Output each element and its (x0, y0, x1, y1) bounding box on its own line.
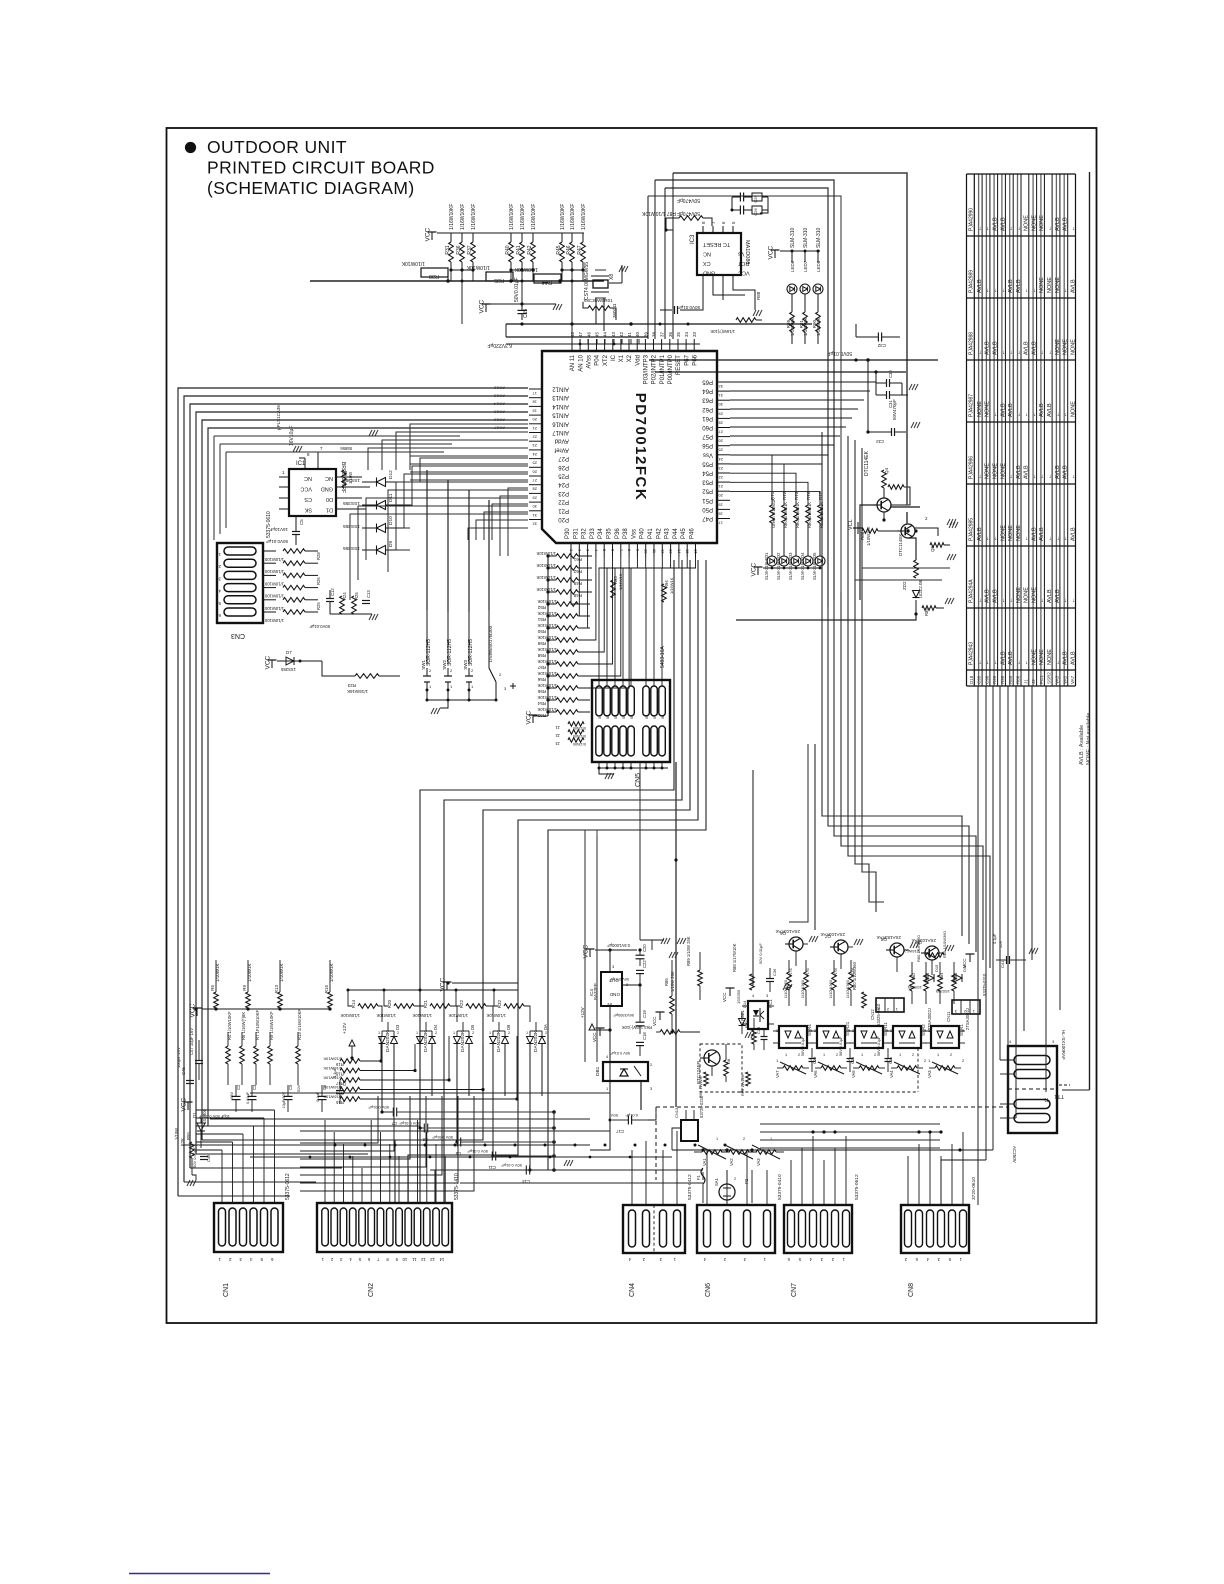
svg-text:←: ← (985, 536, 991, 542)
svg-text:AVLB : Available: AVLB : Available (1079, 725, 1085, 765)
svg-text:1/10W100: 1/10W100 (264, 594, 284, 599)
svg-text:1: 1 (378, 1031, 380, 1035)
svg-text:P63: P63 (702, 397, 713, 403)
svg-text:20: 20 (532, 417, 537, 422)
svg-text:C5: C5 (288, 1084, 293, 1090)
svg-text:1/10W100: 1/10W100 (264, 569, 284, 574)
svg-text:NONE: NONE (1000, 463, 1006, 479)
svg-text:R86: R86 (664, 978, 669, 986)
svg-text:R85: R85 (924, 608, 929, 616)
svg-text:1/16W10K: 1/16W10K (323, 1076, 342, 1081)
svg-text:P42: P42 (656, 528, 662, 539)
svg-text:CST4.00MGW55: CST4.00MGW55 (584, 262, 590, 300)
svg-text:AVLB: AVLB (1000, 651, 1006, 665)
svg-text:R21: R21 (423, 1000, 428, 1009)
svg-text:R69 1W22K: R69 1W22K (740, 1074, 745, 1096)
svg-text:31: 31 (532, 513, 537, 518)
svg-text:05: 05 (630, 715, 634, 719)
svg-text:C19: C19 (642, 1010, 647, 1018)
svg-text:25: 25 (718, 448, 723, 453)
svg-text:Q5: Q5 (930, 545, 935, 552)
svg-text:AIN16: AIN16 (552, 420, 569, 426)
svg-text:VA3: VA3 (927, 1070, 932, 1078)
svg-text:SW3: SW3 (463, 660, 468, 670)
svg-text:ZD2: ZD2 (902, 581, 907, 590)
svg-text:C3: C3 (252, 1084, 257, 1090)
svg-text:←: ← (1031, 474, 1037, 480)
svg-text:CN1: CN1 (223, 1283, 230, 1297)
svg-text:←: ← (1063, 536, 1069, 542)
svg-text:C26: C26 (753, 208, 758, 216)
svg-text:R47: R47 (577, 245, 583, 254)
svg-text:PJA42989: PJA42989 (969, 270, 975, 293)
svg-text:1SS355: 1SS355 (907, 985, 922, 990)
svg-text:1/16W10KF: 1/16W10KF (471, 204, 477, 230)
svg-text:R28: R28 (316, 552, 321, 560)
svg-text:1/10W10K: 1/10W10K (376, 1013, 396, 1018)
svg-text:AVLB: AVLB (1063, 651, 1069, 665)
svg-text:1/10W100: 1/10W100 (264, 581, 284, 586)
svg-text:R55: R55 (537, 689, 546, 694)
svg-text:VA3: VA3 (1055, 675, 1060, 684)
svg-text:R56: R56 (537, 677, 546, 682)
svg-text:UDZ2.0B: UDZ2.0B (918, 579, 923, 598)
svg-text:55856: 55856 (340, 446, 352, 451)
svg-text:PJA42987: PJA42987 (969, 394, 975, 417)
svg-text:R62: R62 (573, 569, 582, 574)
svg-text:21: 21 (532, 426, 537, 431)
svg-text:←: ← (1008, 474, 1014, 480)
svg-text:P64: P64 (702, 388, 713, 394)
svg-text:AVLB: AVLB (1063, 217, 1069, 231)
svg-text:P20: P20 (558, 516, 569, 522)
svg-text:X8C36WBR01: X8C36WBR01 (583, 298, 613, 303)
svg-text:X1: X1 (619, 354, 625, 362)
svg-text:P35: P35 (607, 528, 613, 539)
svg-text:R91: R91 (799, 320, 804, 329)
svg-text:GND: GND (609, 992, 620, 997)
svg-text:50V470pF: 50V470pF (892, 399, 897, 420)
svg-text:R80 1/16W360: R80 1/16W360 (916, 935, 921, 962)
svg-text:R63 1/4W(-)10K: R63 1/4W(-)10K (622, 1025, 652, 1030)
svg-text:22: 22 (532, 435, 537, 440)
svg-text:1/10W100: 1/10W100 (264, 618, 284, 623)
svg-text:C96: C96 (985, 675, 990, 684)
svg-text:R5: R5 (210, 985, 215, 991)
svg-text:2: 2 (836, 1053, 838, 1057)
svg-text:43: 43 (611, 331, 616, 337)
svg-text:NONE: NONE (1016, 525, 1022, 541)
svg-text:CN7: CN7 (791, 1283, 798, 1297)
svg-text:DAN202K: DAN202K (385, 1030, 391, 1052)
svg-text:1SS355: 1SS355 (343, 477, 360, 483)
svg-text:2: 2 (435, 1031, 437, 1035)
svg-text:1/10W10K: 1/10W10K (537, 695, 557, 700)
svg-text:SSR1: SSR1 (959, 1024, 964, 1036)
svg-text:1: 1 (823, 1053, 825, 1057)
svg-text:SSR11: SSR11 (883, 1022, 888, 1036)
svg-text:D8: D8 (726, 1058, 731, 1064)
svg-text:R66 1W22K: R66 1W22K (698, 1076, 703, 1098)
svg-text:P44: P44 (673, 528, 679, 539)
svg-text:µPLS1CA36: µPLS1CA36 (276, 405, 281, 430)
svg-text:CN4: CN4 (629, 1283, 636, 1297)
svg-text:PJA42990: PJA42990 (969, 208, 975, 231)
svg-text:R15: R15 (324, 985, 329, 994)
svg-text:D3: D3 (395, 1024, 400, 1030)
svg-text:56V 0.01µF: 56V 0.01µF (801, 1036, 805, 1056)
svg-text:R25: R25 (354, 592, 359, 600)
svg-text:NONE: NONE (1031, 649, 1037, 665)
svg-text:P45: P45 (681, 528, 687, 539)
svg-text:16: 16 (694, 549, 699, 554)
svg-text:P46: P46 (690, 528, 696, 539)
svg-text:1: 1 (937, 1053, 939, 1057)
svg-text:AVLB: AVLB (1000, 403, 1006, 417)
svg-text:P03/INTP3: P03/INTP3 (644, 354, 650, 384)
svg-text:OUTDOOR UNIT: OUTDOOR UNIT (207, 137, 347, 157)
svg-text:P27: P27 (558, 455, 569, 461)
svg-text:SW2: SW2 (442, 660, 447, 670)
svg-text:←: ← (1008, 350, 1014, 356)
svg-text:P02/INTP2: P02/INTP2 (652, 354, 658, 384)
svg-text:50V0.01µF: 50V0.01µF (266, 539, 288, 544)
svg-text:P43: P43 (665, 528, 671, 539)
svg-text:1/16W10KF: 1/16W10KF (509, 204, 515, 230)
svg-text:TC RESET: TC RESET (702, 241, 730, 247)
svg-text:11: 11 (411, 1257, 416, 1262)
svg-text:C28: C28 (812, 1056, 817, 1064)
svg-text:SSR2: SSR2 (921, 1024, 926, 1036)
svg-text:P00/INTP0: P00/INTP0 (668, 354, 674, 384)
svg-text:1/10W360: 1/10W360 (828, 979, 833, 998)
svg-text:10: 10 (644, 549, 649, 554)
svg-text:02: 02 (606, 715, 610, 719)
svg-text:AVLB: AVLB (1070, 279, 1076, 293)
svg-text:VCC: VCC (592, 1032, 597, 1042)
svg-text:SLM-319LED2: SLM-319LED2 (776, 552, 781, 580)
svg-text:←: ← (977, 350, 983, 356)
svg-text:NONE: NONE (1031, 215, 1037, 231)
svg-text:NONE: NONE (1070, 339, 1076, 355)
svg-text:PJA42985: PJA42985 (969, 518, 975, 541)
svg-text:SSR2: SSR2 (1047, 672, 1052, 684)
svg-text:D1: D1 (326, 507, 333, 513)
svg-text:28: 28 (532, 487, 537, 492)
svg-text:P23: P23 (558, 490, 569, 496)
svg-text:←: ← (1039, 598, 1045, 604)
svg-text:AVLB: AVLB (985, 341, 991, 355)
svg-text:AVLB: AVLB (1063, 465, 1069, 479)
svg-text:P04: P04 (595, 354, 601, 365)
svg-text:SLM-319LED5: SLM-319LED5 (812, 552, 817, 580)
svg-text:P57: P57 (702, 433, 713, 439)
svg-text:1/16W10KF: 1/16W10KF (460, 204, 466, 230)
svg-text:SLM-310: SLM-310 (803, 227, 809, 248)
svg-text:R9: R9 (242, 985, 247, 991)
svg-text:50V 0.01µF: 50V 0.01µF (758, 943, 763, 964)
svg-text:D5: D5 (470, 1024, 475, 1030)
svg-text:←: ← (1000, 288, 1006, 294)
svg-text:LED6: LED6 (790, 260, 795, 272)
svg-text:1/16W1K: 1/16W1K (669, 577, 674, 594)
svg-text:20: 20 (718, 493, 723, 498)
svg-text:VA2: VA2 (729, 1158, 734, 1166)
svg-text:50V 0.01µF: 50V 0.01µF (610, 1051, 630, 1055)
svg-text:R44: R44 (542, 279, 552, 285)
svg-text:24: 24 (532, 452, 537, 457)
svg-text:P53: P53 (702, 479, 713, 485)
svg-text:C36: C36 (772, 968, 777, 976)
svg-text:1SS355: 1SS355 (343, 500, 360, 506)
svg-text:2: 2 (545, 1031, 547, 1035)
svg-text:VA5: VA5 (851, 1070, 856, 1078)
svg-text:PRINTED CIRCUIT BOARD: PRINTED CIRCUIT BOARD (207, 158, 435, 178)
svg-text:R89: R89 (1008, 675, 1013, 684)
svg-text:R25: R25 (316, 602, 321, 610)
svg-text:R73: R73 (794, 491, 799, 500)
svg-text:17: 17 (718, 521, 723, 526)
svg-text:29: 29 (718, 411, 723, 416)
svg-text:NONE: NONE (993, 463, 999, 479)
svg-text:←: ← (1039, 350, 1045, 356)
svg-text:←: ← (977, 226, 983, 232)
svg-text:P38: P38 (623, 528, 629, 539)
svg-text:18: 18 (718, 511, 723, 516)
svg-text:R13: R13 (274, 985, 279, 994)
svg-text:P56: P56 (702, 442, 713, 448)
svg-text:50V0.01µF: 50V0.01µF (309, 624, 330, 629)
svg-text:AVLB: AVLB (993, 589, 999, 603)
svg-text:P24: P24 (558, 481, 569, 487)
svg-text:1/10W100: 1/10W100 (264, 606, 284, 611)
svg-text:30: 30 (532, 504, 537, 509)
svg-text:VCC: VCC (479, 299, 486, 313)
svg-text:P52: P52 (702, 488, 713, 494)
svg-text:VCC: VCC (583, 944, 590, 958)
svg-text:C22: C22 (642, 960, 647, 968)
svg-text:23: 23 (718, 466, 723, 471)
svg-text:32: 32 (718, 384, 723, 389)
svg-text:22: 22 (718, 475, 723, 480)
svg-text:DTC114EK: DTC114EK (864, 450, 870, 476)
svg-text:1/16W10K: 1/16W10K (323, 1066, 342, 1071)
svg-text:PJA42986: PJA42986 (969, 456, 975, 479)
svg-text:R58: R58 (537, 653, 546, 658)
svg-text:50V 0.01µF: 50V 0.01µF (609, 977, 629, 981)
svg-text:14: 14 (677, 549, 682, 554)
svg-text:←: ← (1000, 350, 1006, 356)
svg-text:AVLB: AVLB (1039, 403, 1045, 417)
svg-text:1/10W10K: 1/10W10K (514, 266, 538, 272)
svg-text:31: 31 (718, 393, 723, 398)
svg-text:0.01µF: 0.01µF (246, 1091, 250, 1104)
svg-text:R41: R41 (516, 245, 522, 254)
svg-text:35: 35 (676, 331, 681, 337)
svg-text:NONE: NONE (1031, 587, 1037, 603)
svg-text:J3: J3 (555, 741, 560, 746)
svg-text:P50: P50 (702, 506, 713, 512)
svg-text:R98: R98 (786, 320, 791, 329)
svg-text:32: 32 (532, 522, 537, 527)
svg-text:AVLB: AVLB (1055, 465, 1061, 479)
svg-text:44: 44 (603, 331, 608, 337)
svg-text:1/10W10K: 1/10W10K (448, 1013, 468, 1018)
svg-text:R: R (1044, 1096, 1048, 1102)
svg-text:AVLB: AVLB (1016, 465, 1022, 479)
svg-text:←: ← (1063, 288, 1069, 294)
svg-text:XT2: XT2 (603, 354, 609, 366)
svg-text:VCC: VCC (265, 655, 272, 669)
svg-text:R86: R86 (860, 531, 865, 540)
svg-text:D0: D0 (326, 496, 333, 502)
svg-text:PJA42988: PJA42988 (969, 332, 975, 355)
svg-text:15: 15 (685, 549, 690, 554)
svg-text:C95: C95 (977, 675, 982, 684)
svg-text:AIN15: AIN15 (552, 412, 569, 418)
svg-text:1/10W10K: 1/10W10K (466, 264, 490, 270)
svg-text:IC4: IC4 (589, 989, 594, 997)
svg-text:D9: D9 (388, 541, 394, 547)
svg-text:56V: 56V (230, 1092, 234, 1099)
svg-text:50V 0.01µF: 50V 0.01µF (467, 1149, 488, 1154)
svg-text:36: 36 (668, 331, 673, 337)
svg-text:R61: R61 (573, 557, 582, 562)
svg-text:C5: C5 (299, 519, 304, 525)
svg-text:03: 03 (614, 715, 618, 719)
svg-text:AVref: AVref (554, 446, 569, 452)
svg-text:04: 04 (622, 715, 626, 719)
svg-text:J1: J1 (555, 725, 560, 730)
svg-text:3720-0610: 3720-0610 (971, 1177, 977, 1200)
svg-text:NC: NC (325, 475, 333, 481)
svg-text:13: 13 (430, 1257, 435, 1262)
svg-text:←: ← (1047, 474, 1053, 480)
svg-text:VCC: VCC (738, 270, 750, 276)
svg-text:2: 2 (950, 1053, 952, 1057)
svg-text:C15: C15 (523, 309, 529, 318)
svg-text:AVLB: AVLB (1008, 279, 1014, 293)
svg-text:(SCHEMATIC DIAGRAM): (SCHEMATIC DIAGRAM) (207, 178, 415, 198)
svg-text:1/16W(?)10K: 1/16W(?)10K (710, 329, 735, 334)
svg-text:1/10W10K: 1/10W10K (536, 575, 556, 580)
svg-text:1: 1 (899, 1053, 901, 1057)
svg-text:12: 12 (660, 549, 665, 554)
svg-text:NONE: NONE (1039, 277, 1045, 293)
svg-text:2: 2 (798, 1053, 800, 1057)
svg-text:R50: R50 (537, 629, 546, 634)
svg-text:VA7: VA7 (1070, 675, 1075, 684)
svg-text:1SS300: 1SS300 (202, 1108, 207, 1124)
svg-text:1/10W10K: 1/10W10K (537, 683, 557, 688)
svg-text:2: 2 (912, 1053, 914, 1057)
svg-text:P32: P32 (582, 528, 588, 539)
svg-text:R36: R36 (456, 245, 462, 254)
svg-text:50V0.01µF: 50V0.01µF (514, 277, 520, 302)
svg-text:1SS355: 1SS355 (935, 989, 950, 994)
svg-text:F1: F1 (696, 1174, 701, 1180)
svg-text:P30: P30 (565, 528, 571, 539)
svg-text:53375-0412: 53375-0412 (687, 1174, 693, 1200)
svg-text:DB1: DB1 (595, 1066, 601, 1076)
svg-text:NONE: NONE (1016, 587, 1022, 603)
svg-text:1/16W(-): 1/16W(-) (904, 949, 920, 954)
svg-text:VCC: VCC (300, 486, 312, 492)
svg-text:AVLB: AVLB (977, 527, 983, 541)
svg-text:R14: R14 (351, 1000, 356, 1009)
svg-text:R49: R49 (573, 581, 582, 586)
svg-text:2: 2 (734, 1177, 736, 1181)
svg-text:07: 07 (653, 715, 657, 719)
svg-text:2SA1037AK: 2SA1037AK (820, 932, 845, 937)
svg-text:←: ← (1070, 598, 1076, 604)
svg-text:←: ← (977, 598, 983, 604)
svg-text:AIN12: AIN12 (552, 386, 569, 392)
svg-text:AVLB: AVLB (1008, 651, 1014, 665)
svg-text:CN13: CN13 (674, 1107, 679, 1118)
svg-text:34: 34 (684, 331, 689, 337)
svg-text:2: 2 (508, 1031, 510, 1035)
svg-text:P26: P26 (558, 464, 569, 470)
svg-text:←: ← (1016, 225, 1022, 231)
svg-text:IC: IC (611, 354, 617, 361)
svg-text:HL-SX100RAF: HL-SX100RAF (1061, 1030, 1066, 1060)
svg-text:R45: R45 (556, 245, 562, 254)
svg-text:R89 1/10W 26K: R89 1/10W 26K (686, 936, 691, 966)
svg-text:+12V: +12V (580, 1007, 585, 1018)
svg-text:56V 0.01µF: 56V 0.01µF (839, 1036, 843, 1056)
svg-text:LED8: LED8 (816, 260, 821, 272)
svg-text:P62: P62 (702, 406, 713, 412)
svg-text:16V10µF: 16V10µF (269, 527, 288, 532)
svg-text:Vss: Vss (631, 529, 637, 539)
svg-text:NONE: NONE (1000, 525, 1006, 541)
svg-text:P33: P33 (590, 528, 596, 539)
svg-text:17: 17 (532, 391, 537, 396)
svg-text:←: ← (1070, 226, 1076, 232)
svg-text:R24: R24 (342, 592, 347, 600)
svg-text:1: 1 (785, 1053, 787, 1057)
svg-text:AVLB: AVLB (977, 279, 983, 293)
svg-text:X2: X2 (627, 354, 633, 362)
svg-text:06: 06 (645, 715, 649, 719)
svg-text:48: 48 (570, 331, 575, 337)
svg-text:C33: C33 (876, 439, 884, 444)
svg-text:AVLB: AVLB (1024, 465, 1030, 479)
svg-text:R46: R46 (566, 245, 572, 254)
svg-text:2: 2 (397, 1031, 399, 1035)
svg-text:27: 27 (718, 430, 723, 435)
svg-text:PJA4294A: PJA4294A (969, 579, 975, 603)
svg-text:1: 1 (716, 1137, 718, 1141)
svg-text:50V 0.01µF: 50V 0.01µF (501, 1163, 522, 1168)
svg-text:1SS355: 1SS355 (343, 523, 360, 529)
svg-text:P40: P40 (640, 528, 646, 539)
svg-text:1/10W10K: 1/10W10K (340, 1013, 360, 1018)
svg-text:←: ← (1047, 350, 1053, 356)
svg-text:NONE: NONE (1055, 277, 1061, 293)
svg-text:AIN17: AIN17 (552, 429, 569, 435)
svg-text:←: ← (1063, 598, 1069, 604)
svg-text:J2: J2 (1031, 679, 1036, 684)
svg-text:37: 37 (660, 331, 665, 337)
svg-text:VA7: VA7 (775, 1070, 780, 1078)
svg-text:MA1D086: MA1D086 (744, 240, 750, 264)
svg-text:1/10W360: 1/10W360 (800, 979, 805, 998)
svg-text:LED7: LED7 (803, 260, 808, 272)
svg-text:D7: D7 (286, 650, 292, 655)
svg-text:SSR21: SSR21 (845, 1021, 850, 1036)
